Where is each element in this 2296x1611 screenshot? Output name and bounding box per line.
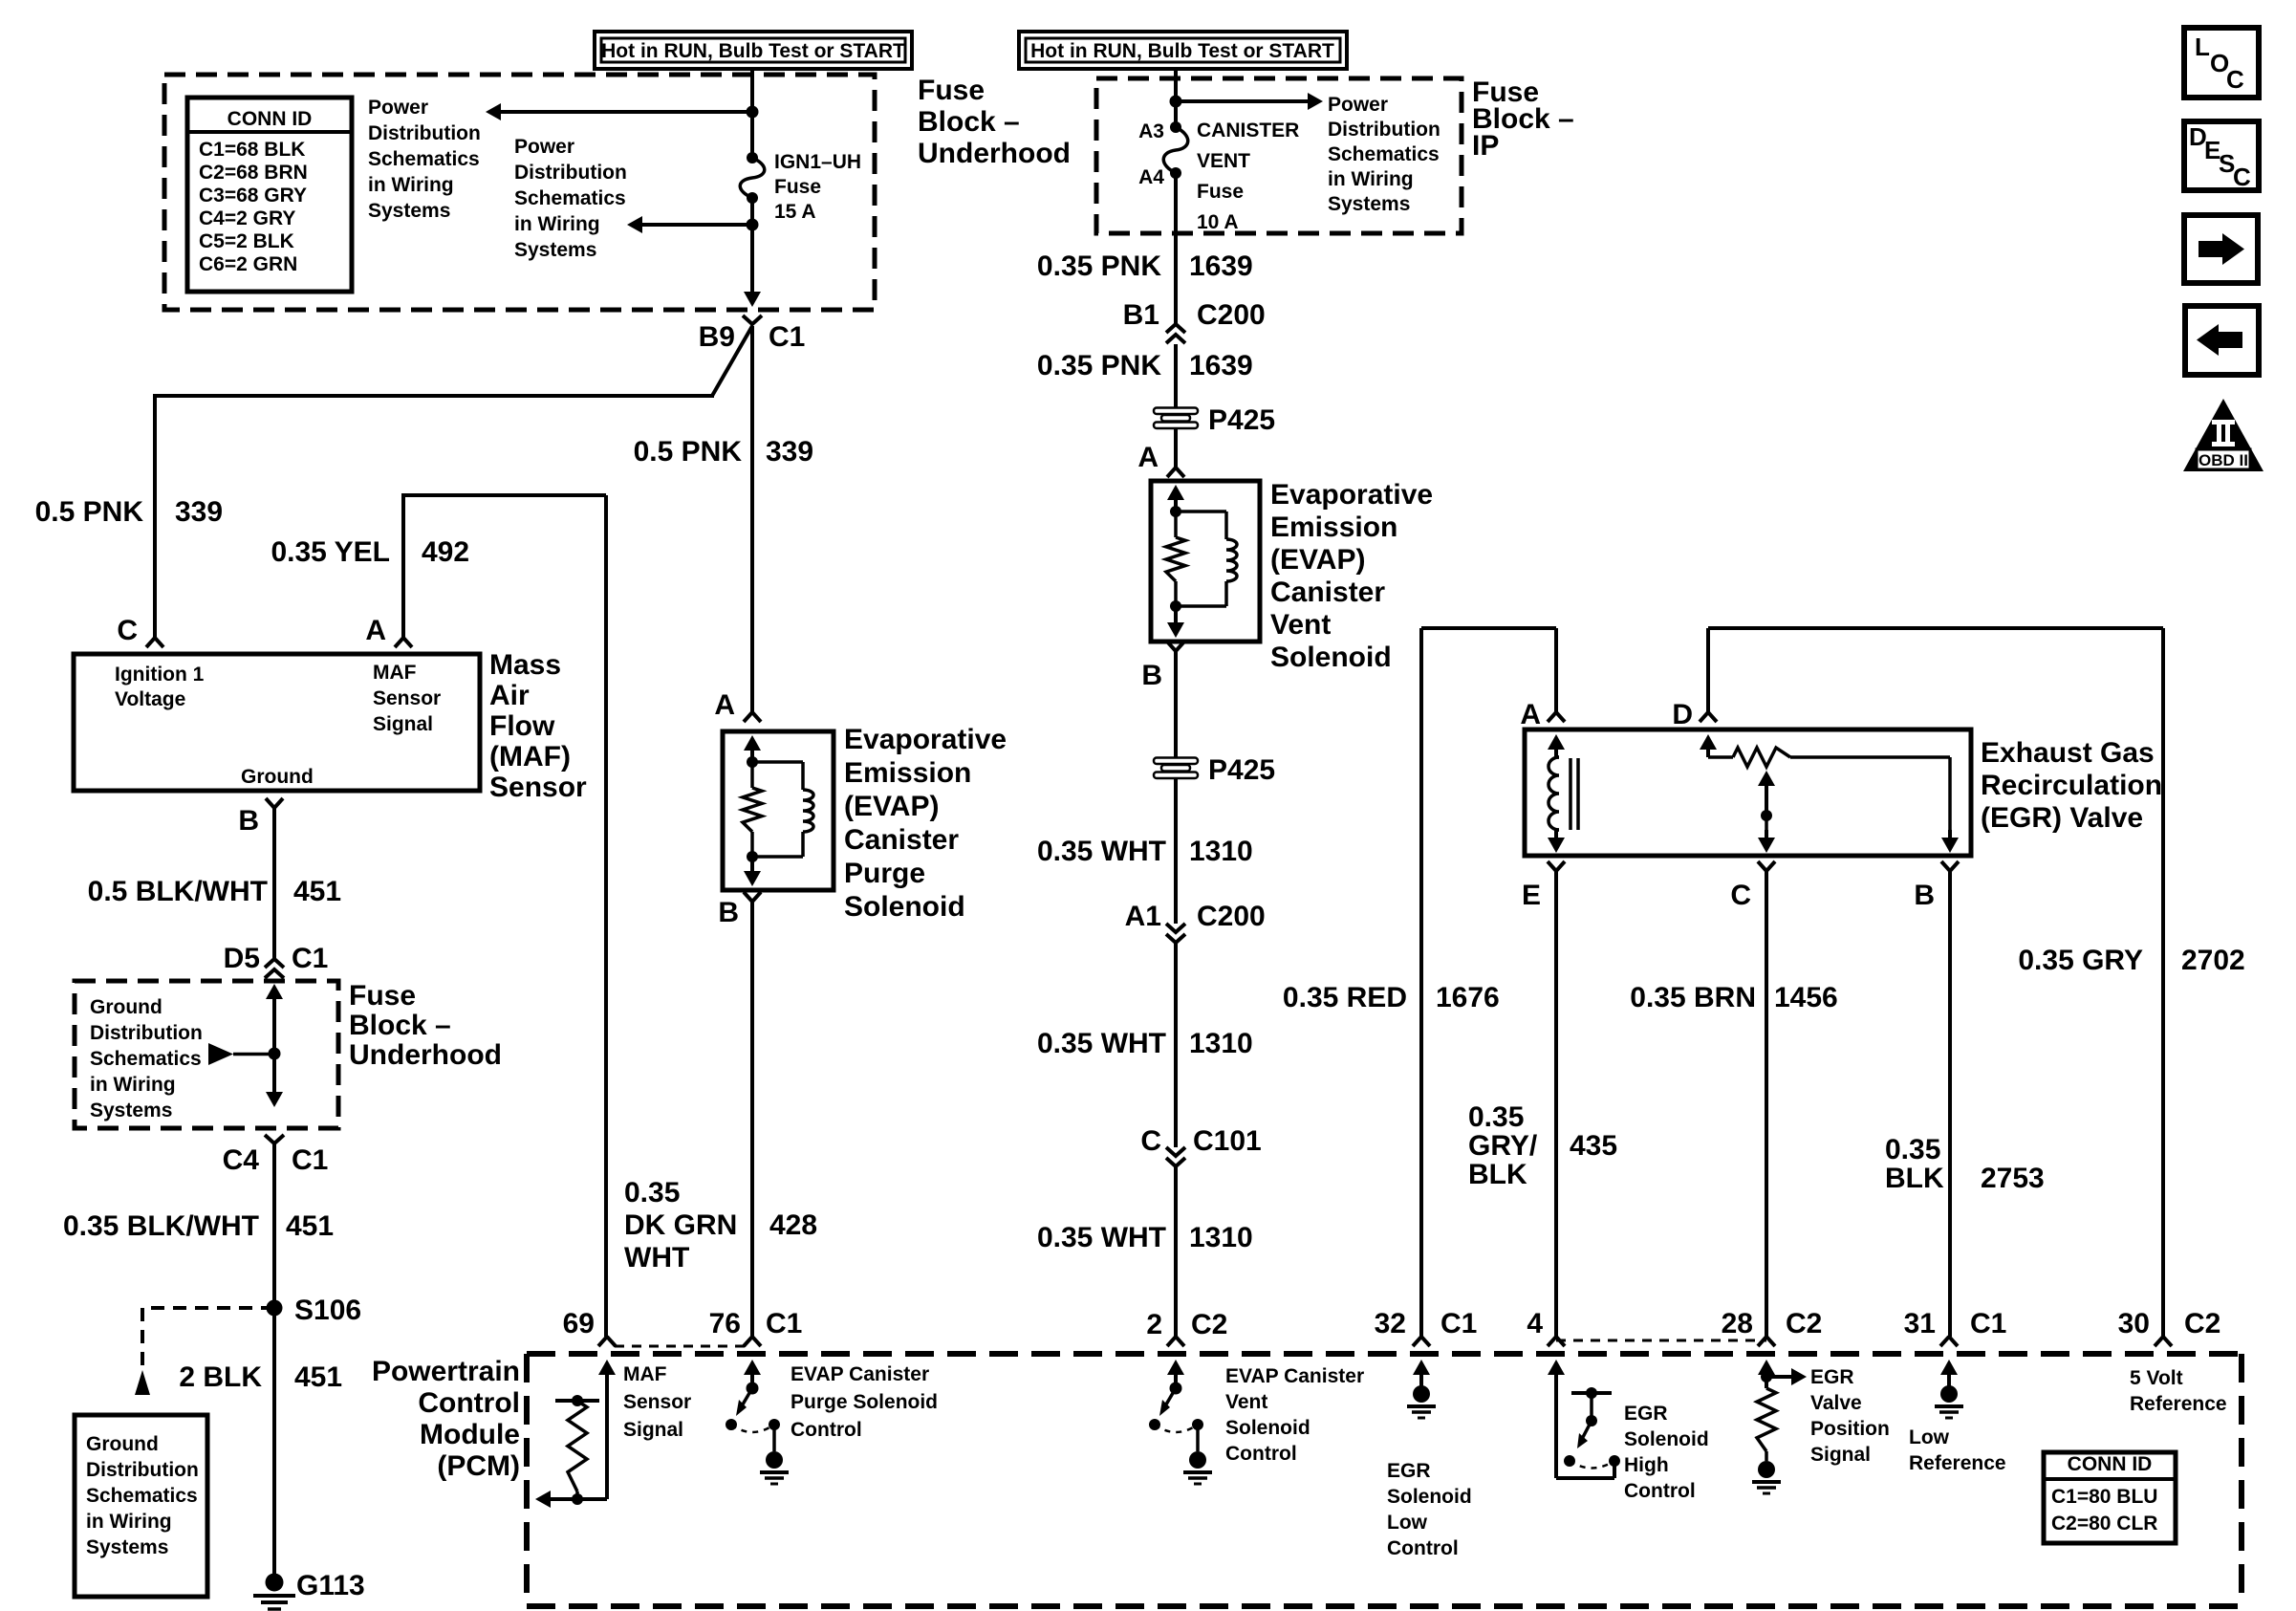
PCM pin 28 C2	[1722, 1308, 1823, 1386]
label 5 Volt Reference	[2130, 1367, 2227, 1415]
PCM pin 69	[563, 1308, 616, 1386]
svg-text:31: 31	[1904, 1308, 1936, 1339]
svg-text:Systems: Systems	[86, 1536, 168, 1558]
label fuse terminal A3	[1138, 120, 1164, 142]
svg-text:C2: C2	[1191, 1309, 1227, 1340]
svg-text:S106: S106	[294, 1295, 361, 1326]
purge solenoid resistor	[743, 762, 762, 857]
fuse block - IP dashed box	[1096, 78, 1462, 233]
svg-text:GRY/: GRY/	[1468, 1130, 1538, 1162]
label EGR Solenoid Low Control	[1387, 1460, 1472, 1559]
svg-text:Canister: Canister	[844, 824, 959, 856]
vent solenoid resistor	[1166, 512, 1185, 606]
PCM pin 32 C1	[1375, 1308, 1478, 1386]
connector D5 C1	[224, 943, 329, 978]
svg-text:Control: Control	[791, 1419, 862, 1441]
svg-text:0.35 WHT: 0.35 WHT	[1037, 1222, 1166, 1253]
label 0.35 WHT 1310 (segment 2)	[1037, 1028, 1253, 1059]
note ground distribution schematics in wiring systems	[90, 996, 203, 1121]
wire ignition feed from hot bus	[750, 67, 754, 158]
svg-text:Voltage: Voltage	[115, 688, 185, 710]
svg-text:76: 76	[709, 1308, 741, 1339]
MAF pin B	[238, 798, 283, 837]
wire 2 BLK 451	[272, 1308, 276, 1574]
svg-text:0.35 WHT: 0.35 WHT	[1037, 836, 1166, 867]
label box Hot in RUN Bulb Test or START (right)	[1019, 32, 1347, 69]
svg-text:Low: Low	[1387, 1512, 1428, 1534]
label 0.35 GRY 2702	[2018, 945, 2244, 976]
svg-text:C4=2 GRY: C4=2 GRY	[199, 207, 295, 229]
EVAP canister vent solenoid driver switch	[1149, 1382, 1203, 1452]
ground symbol (EGR valve position signal)	[1752, 1461, 1781, 1493]
svg-text:IP: IP	[1472, 130, 1499, 162]
svg-text:Mass: Mass	[489, 649, 561, 681]
exhaust gas recirculation (EGR) valve box	[1525, 729, 1971, 856]
svg-text:G113: G113	[296, 1570, 365, 1601]
label Mass Air Flow (MAF) Sensor	[489, 649, 587, 803]
svg-text:Power: Power	[1328, 94, 1388, 116]
svg-text:D: D	[1672, 699, 1693, 730]
svg-text:in Wiring: in Wiring	[514, 213, 600, 235]
svg-text:DK GRN: DK GRN	[624, 1209, 737, 1241]
label 0.35 GRY/BLK 435	[1468, 1101, 1617, 1190]
label fuse terminal A4	[1138, 166, 1164, 188]
svg-text:in Wiring: in Wiring	[90, 1074, 176, 1096]
svg-text:Block –: Block –	[918, 106, 1020, 138]
label Evaporative Emission (EVAP) Canister Purge Solenoid	[844, 724, 1007, 923]
svg-text:69: 69	[563, 1308, 595, 1339]
wire 0.35 PNK 1639 (lower)	[1174, 344, 1178, 398]
low reference ground	[1935, 1367, 1963, 1418]
svg-text:C4: C4	[223, 1144, 260, 1176]
svg-text:435: 435	[1570, 1130, 1617, 1162]
wire 0.35 WHT 1310 (segment 2)	[1174, 943, 1178, 1147]
PCM pin 31 C1	[1904, 1308, 2007, 1386]
svg-text:(MAF): (MAF)	[489, 741, 571, 773]
svg-text:B1: B1	[1123, 299, 1159, 331]
MAF pin A	[365, 615, 412, 647]
legend icon back arrow	[2185, 306, 2259, 375]
svg-text:Ground: Ground	[241, 766, 314, 788]
svg-text:EVAP Canister: EVAP Canister	[791, 1363, 929, 1385]
svg-text:5 Volt: 5 Volt	[2130, 1367, 2183, 1389]
svg-text:C3=68 GRY: C3=68 GRY	[199, 185, 307, 207]
svg-text:A: A	[1520, 699, 1541, 730]
EVAP canister purge solenoid driver switch	[726, 1382, 780, 1452]
label EVAP Canister Vent Solenoid Control	[1225, 1365, 1364, 1465]
svg-text:Hot in RUN, Bulb Test or START: Hot in RUN, Bulb Test or START	[1030, 40, 1334, 62]
label 0.35 DK GRN WHT 428	[624, 1177, 817, 1274]
svg-text:C6=2 GRN: C6=2 GRN	[199, 253, 297, 275]
svg-text:Hot in RUN, Bulb Test or START: Hot in RUN, Bulb Test or START	[601, 40, 905, 62]
label 0.35 RED 1676	[1283, 982, 1500, 1013]
connector B1 C200	[1123, 299, 1266, 343]
svg-text:Control: Control	[418, 1387, 520, 1419]
svg-text:C2=80 CLR: C2=80 CLR	[2051, 1513, 2157, 1535]
wire 0.35 GRY 2702 (EGR D to pin 30)	[1708, 628, 2163, 1337]
svg-text:C200: C200	[1197, 299, 1266, 331]
svg-text:CONN ID: CONN ID	[227, 108, 313, 130]
svg-text:P425: P425	[1208, 754, 1275, 786]
fuse CANISTER VENT 10 A	[1163, 121, 1188, 179]
MAF sensor box	[74, 654, 480, 791]
EGR valve pin C	[1730, 861, 1775, 911]
wire 0.5 PNK 339 to purge solenoid	[750, 326, 754, 712]
svg-text:492: 492	[422, 536, 469, 568]
svg-text:Fuse: Fuse	[349, 980, 416, 1012]
grommet P425 (lower)	[1154, 651, 1275, 813]
svg-text:Schematics: Schematics	[514, 187, 626, 209]
EGR potentiometer wiper	[1758, 771, 1775, 853]
svg-text:339: 339	[175, 496, 223, 528]
svg-text:0.35 RED: 0.35 RED	[1283, 982, 1407, 1013]
svg-text:Low: Low	[1909, 1426, 1950, 1448]
svg-text:2: 2	[1146, 1309, 1162, 1340]
svg-text:Vent: Vent	[1225, 1391, 1267, 1413]
svg-text:0.35 YEL: 0.35 YEL	[271, 536, 390, 568]
PCM pin 30 C2	[2118, 1308, 2221, 1346]
svg-text:Distribution: Distribution	[368, 122, 481, 144]
svg-text:C1: C1	[766, 1308, 802, 1339]
svg-text:1639: 1639	[1189, 250, 1253, 282]
svg-text:1310: 1310	[1189, 1222, 1253, 1253]
PCM pin 4	[1527, 1308, 1565, 1386]
svg-text:OBD II: OBD II	[2199, 451, 2248, 469]
label 0.35 BLK 2753	[1885, 1134, 2045, 1194]
svg-text:Solenoid: Solenoid	[1387, 1486, 1472, 1508]
svg-text:Systems: Systems	[1328, 193, 1410, 215]
svg-text:1310: 1310	[1189, 836, 1253, 867]
svg-text:Signal: Signal	[373, 713, 433, 735]
svg-text:Air: Air	[489, 680, 530, 711]
svg-text:Solenoid: Solenoid	[1270, 642, 1392, 673]
label Evaporative Emission (EVAP) Canister Vent Solenoid	[1270, 479, 1433, 673]
note power distribution schematics (left)	[368, 97, 481, 222]
svg-text:0.5 PNK: 0.5 PNK	[35, 496, 144, 528]
wire hot feed into IP fuse block	[1174, 67, 1178, 127]
wire 0.5 PNK 339 branch to MAF (diagonal)	[155, 326, 752, 638]
label EVAP Canister Purge Solenoid Control	[791, 1363, 938, 1441]
svg-text:Evaporative: Evaporative	[844, 724, 1007, 755]
PCM connector notch between pins 69 and 76	[615, 1345, 745, 1348]
fuse IGN1-UH 15 A	[740, 152, 765, 204]
wire with arrow to power distribution note (left)	[486, 103, 759, 120]
wire with arrow to power distribution note (IP)	[1170, 93, 1324, 110]
svg-text:Distribution: Distribution	[90, 1022, 203, 1044]
fuse block - underhood dashed box (ground)	[75, 981, 338, 1128]
svg-text:Control: Control	[1225, 1443, 1297, 1465]
svg-text:2702: 2702	[2181, 945, 2245, 976]
svg-text:C1: C1	[292, 1144, 328, 1176]
svg-text:L: L	[2195, 33, 2210, 61]
label 0.35 BLK/WHT 451	[63, 1210, 334, 1242]
svg-text:A: A	[1137, 442, 1159, 473]
wire 0.35 BLK 2753 (EGR B to pin 31)	[1948, 871, 1952, 1337]
svg-text:MAF: MAF	[623, 1363, 667, 1385]
svg-text:CONN ID: CONN ID	[2068, 1453, 2153, 1475]
svg-text:Powertrain: Powertrain	[372, 1356, 520, 1387]
svg-text:EVAP Canister: EVAP Canister	[1225, 1365, 1364, 1387]
svg-text:1676: 1676	[1436, 982, 1500, 1013]
PCM pin 76 C1	[709, 1308, 803, 1386]
svg-text:Power: Power	[514, 136, 574, 158]
svg-text:C: C	[2226, 65, 2244, 94]
svg-text:Fuse: Fuse	[918, 75, 985, 106]
EGR solenoid coil	[1548, 734, 1578, 853]
label 0.35 PNK 1639 (upper)	[1037, 250, 1253, 282]
svg-text:C2: C2	[2184, 1308, 2220, 1339]
svg-text:32: 32	[1375, 1308, 1406, 1339]
svg-text:Systems: Systems	[514, 239, 596, 261]
svg-text:C: C	[2233, 163, 2251, 191]
EVAP canister purge solenoid box	[723, 731, 834, 890]
wire 0.35 PNK 1639 (upper)	[1174, 173, 1178, 323]
ground G113	[253, 1570, 365, 1609]
svg-text:Ground: Ground	[86, 1433, 159, 1455]
svg-text:Underhood: Underhood	[349, 1039, 502, 1071]
arrow from ground distribution note	[208, 1043, 274, 1065]
svg-text:Fuse: Fuse	[1197, 181, 1244, 203]
svg-text:Emission: Emission	[1270, 512, 1397, 543]
label 0.35 PNK 1639 (lower)	[1037, 350, 1253, 381]
svg-text:339: 339	[766, 436, 813, 468]
wire 0.35 BLK/WHT 451	[272, 1143, 276, 1308]
svg-text:EGR: EGR	[1624, 1403, 1668, 1425]
svg-text:Ignition 1: Ignition 1	[115, 664, 205, 686]
label EGR Solenoid High Control	[1624, 1403, 1709, 1502]
CONN ID table (PCM)	[2044, 1452, 2176, 1543]
PCM connector notch between pins 4 and 28	[1556, 1339, 1766, 1342]
svg-text:Exhaust Gas: Exhaust Gas	[1981, 737, 2155, 769]
MAF pin C	[117, 615, 163, 647]
svg-text:in Wiring: in Wiring	[1328, 168, 1414, 190]
svg-text:C101: C101	[1193, 1125, 1262, 1157]
svg-text:C1: C1	[1970, 1308, 2006, 1339]
legend icon OBD II triangle	[2183, 399, 2264, 471]
svg-text:(EVAP): (EVAP)	[1270, 544, 1365, 576]
svg-text:15 A: 15 A	[774, 201, 816, 223]
svg-text:C1: C1	[1440, 1308, 1477, 1339]
svg-text:C: C	[117, 615, 138, 646]
svg-text:Emission: Emission	[844, 757, 971, 789]
svg-text:in Wiring: in Wiring	[86, 1511, 172, 1533]
svg-text:VENT: VENT	[1197, 150, 1250, 172]
svg-text:EGR: EGR	[1810, 1366, 1854, 1388]
svg-text:1456: 1456	[1774, 982, 1838, 1013]
wire 0.35 DK GRN WHT 428	[750, 902, 754, 1337]
svg-text:0.5 PNK: 0.5 PNK	[634, 436, 743, 468]
label 0.35 WHT 1310 (segment 3)	[1037, 1222, 1253, 1253]
svg-text:Solenoid: Solenoid	[844, 891, 965, 923]
svg-text:451: 451	[286, 1210, 334, 1242]
label MAF Sensor Signal (PCM)	[623, 1363, 691, 1441]
svg-text:451: 451	[294, 1361, 342, 1393]
svg-text:High: High	[1624, 1454, 1669, 1476]
svg-text:Ground: Ground	[90, 996, 162, 1018]
label 0.5 BLK/WHT 451	[88, 876, 341, 907]
svg-text:Distribution: Distribution	[86, 1459, 199, 1481]
label Powertrain Control Module (PCM)	[372, 1356, 520, 1482]
CONN ID table (fuse block underhood)	[187, 98, 352, 292]
connector C4 C1	[223, 1135, 329, 1176]
PCM pin 2 C2	[1146, 1309, 1227, 1386]
MAF internal labels	[115, 662, 441, 788]
svg-text:C: C	[1730, 880, 1751, 911]
svg-text:Solenoid: Solenoid	[1624, 1428, 1709, 1450]
splice S106	[267, 1295, 362, 1326]
svg-text:0.35: 0.35	[624, 1177, 680, 1208]
EGR valve pin A	[1520, 699, 1565, 730]
svg-text:Schematics: Schematics	[90, 1048, 202, 1070]
svg-text:C1: C1	[292, 943, 328, 974]
svg-text:Signal: Signal	[1810, 1444, 1871, 1466]
svg-text:0.35: 0.35	[1468, 1101, 1524, 1133]
label 0.35 WHT 1310 (segment 1)	[1037, 836, 1253, 867]
svg-text:Schematics: Schematics	[368, 148, 480, 170]
ground symbol (purge solenoid driver)	[760, 1451, 789, 1484]
svg-text:Purge: Purge	[844, 858, 925, 889]
legend icon LOC	[2184, 28, 2259, 98]
svg-text:Control: Control	[1387, 1537, 1459, 1559]
label EGR Valve Position Signal	[1810, 1366, 1890, 1466]
legend icon DESC	[2184, 121, 2259, 191]
wire 0.5 BLK/WHT 451	[272, 808, 276, 960]
svg-text:IGN1–UH: IGN1–UH	[774, 151, 861, 173]
powertrain control module (PCM) dashed box	[527, 1354, 2242, 1606]
svg-text:Purge Solenoid: Purge Solenoid	[791, 1391, 938, 1413]
svg-text:C200: C200	[1197, 901, 1266, 932]
svg-text:Underhood: Underhood	[918, 138, 1071, 169]
label Exhaust Gas Recirculation (EGR) Valve	[1981, 737, 2162, 834]
label CANISTER VENT Fuse 10 A	[1197, 120, 1299, 233]
svg-text:Control: Control	[1624, 1480, 1696, 1502]
svg-text:D5: D5	[224, 943, 260, 974]
svg-text:4: 4	[1527, 1308, 1543, 1339]
svg-text:MAF: MAF	[373, 662, 417, 684]
svg-text:in Wiring: in Wiring	[368, 174, 454, 196]
svg-text:EGR: EGR	[1387, 1460, 1431, 1482]
note power distribution schematics (IP)	[1328, 94, 1440, 215]
purge solenoid pin A	[714, 689, 761, 722]
svg-text:Sensor: Sensor	[489, 772, 587, 803]
svg-text:Reference: Reference	[1909, 1452, 2006, 1474]
EVAP canister vent solenoid box	[1151, 481, 1260, 642]
EGR pintle position potentiometer	[1700, 734, 1959, 853]
vent solenoid internals: arrows and nodes	[1167, 485, 1184, 638]
svg-text:Valve: Valve	[1810, 1392, 1862, 1414]
svg-text:Reference: Reference	[2130, 1393, 2227, 1415]
svg-text:(PCM): (PCM)	[437, 1450, 520, 1482]
wire with arrow to power distribution note (mid)	[627, 216, 759, 233]
svg-text:A4: A4	[1138, 166, 1164, 188]
wire 0.35 GRY/BLK 435 (EGR E to pin 4)	[1554, 871, 1558, 1337]
svg-text:451: 451	[293, 876, 341, 907]
svg-text:Canister: Canister	[1270, 577, 1385, 608]
label 0.35 BRN 1456	[1630, 982, 1837, 1013]
vent solenoid pin A	[1137, 442, 1184, 477]
svg-text:Power: Power	[368, 97, 428, 119]
svg-text:B: B	[1141, 660, 1162, 691]
svg-text:0.35 GRY: 0.35 GRY	[2018, 945, 2143, 976]
EGR valve pin E	[1522, 861, 1565, 911]
svg-text:0.35 BLK/WHT: 0.35 BLK/WHT	[63, 1210, 259, 1242]
svg-text:30: 30	[2118, 1308, 2150, 1339]
svg-text:CANISTER: CANISTER	[1197, 120, 1299, 142]
label IGN1-UH Fuse 15 A	[774, 151, 861, 223]
purge solenoid pin B	[718, 892, 761, 928]
wire through ground fuse block	[266, 984, 283, 1107]
svg-text:Recirculation: Recirculation	[1981, 770, 2162, 801]
svg-text:C5=2 BLK: C5=2 BLK	[199, 230, 294, 252]
svg-text:Signal: Signal	[623, 1419, 683, 1441]
svg-text:428: 428	[769, 1209, 817, 1241]
svg-text:0.35: 0.35	[1885, 1134, 1940, 1165]
label 0.35 YEL 492	[271, 536, 469, 568]
EGR solenoid high control driver switch	[1556, 1367, 1620, 1478]
EGR valve pin B	[1914, 861, 1959, 911]
svg-text:(EGR) Valve: (EGR) Valve	[1981, 802, 2143, 834]
wire 0.35 BRN 1456 (EGR C to pin 28)	[1765, 871, 1768, 1337]
svg-text:0.5 BLK/WHT: 0.5 BLK/WHT	[88, 876, 268, 907]
svg-text:A: A	[714, 689, 735, 721]
wire 0.35 YEL 492	[403, 493, 606, 1337]
svg-text:28: 28	[1722, 1308, 1753, 1339]
svg-text:C1: C1	[769, 321, 805, 353]
note power distribution schematics (mid)	[514, 136, 627, 261]
MAF sensor signal resistor inside PCM	[535, 1367, 607, 1508]
grommet P425 (upper)	[1154, 398, 1275, 468]
svg-text:0.35 BRN: 0.35 BRN	[1630, 982, 1756, 1013]
ground distribution schematics box (bottom left)	[75, 1415, 207, 1597]
vent solenoid coil	[1176, 512, 1237, 606]
EGR valve pin D	[1672, 699, 1717, 730]
wire fuse output with down arrow	[744, 198, 761, 307]
svg-text:2753: 2753	[1981, 1163, 2045, 1194]
svg-text:A1: A1	[1125, 901, 1161, 932]
svg-text:Block –: Block –	[349, 1010, 451, 1041]
svg-text:E: E	[1522, 880, 1541, 911]
svg-text:0.35 PNK: 0.35 PNK	[1037, 350, 1161, 381]
svg-text:Sensor: Sensor	[373, 687, 441, 709]
svg-text:10 A: 10 A	[1197, 211, 1239, 233]
svg-text:B: B	[718, 897, 739, 928]
label 2 BLK 451	[179, 1361, 342, 1393]
svg-text:A: A	[365, 615, 386, 646]
svg-text:B: B	[1914, 880, 1935, 911]
svg-text:A3: A3	[1138, 120, 1164, 142]
svg-text:Distribution: Distribution	[514, 162, 627, 184]
svg-text:C: C	[1140, 1125, 1161, 1157]
vent solenoid pin B	[1141, 642, 1184, 691]
svg-text:WHT: WHT	[624, 1242, 689, 1274]
svg-text:1310: 1310	[1189, 1028, 1253, 1059]
svg-text:B: B	[238, 805, 259, 837]
svg-text:0.35 WHT: 0.35 WHT	[1037, 1028, 1166, 1059]
connector C C101	[1140, 1125, 1261, 1166]
svg-text:1639: 1639	[1189, 350, 1253, 381]
svg-text:B9: B9	[699, 321, 735, 353]
dashed branch from S106 to ground note	[135, 1308, 274, 1395]
svg-text:BLK: BLK	[1885, 1163, 1944, 1194]
svg-text:Fuse: Fuse	[774, 176, 821, 198]
svg-text:C2: C2	[1786, 1308, 1822, 1339]
ground symbol (vent solenoid driver)	[1183, 1451, 1212, 1484]
label Fuse Block - IP	[1472, 76, 1574, 162]
svg-text:Solenoid: Solenoid	[1225, 1417, 1310, 1439]
label Fuse Block - Underhood (power)	[918, 75, 1071, 169]
purge solenooid internals: arrows and nodes	[744, 735, 761, 886]
svg-text:Sensor: Sensor	[623, 1391, 691, 1413]
